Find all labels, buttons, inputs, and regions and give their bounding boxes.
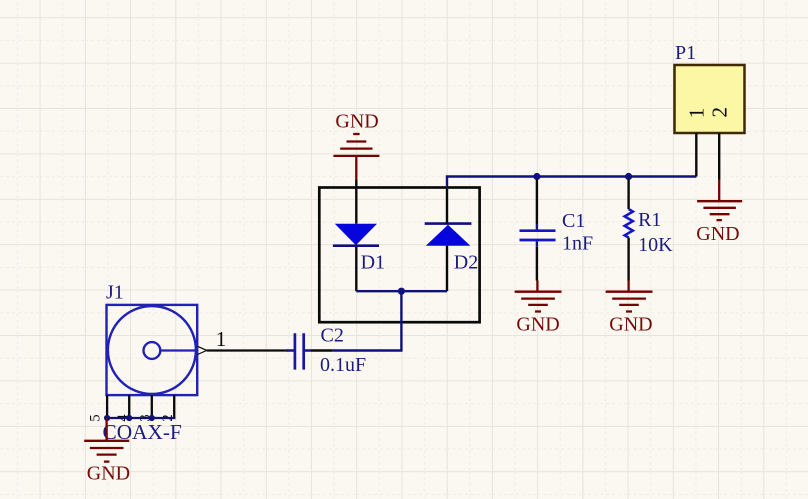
pin J1.5 xyxy=(106,395,108,418)
wire D1 lower pin xyxy=(355,247,357,291)
ground GND under P1 xyxy=(696,180,742,245)
svg-text:5: 5 xyxy=(87,414,103,421)
svg-text:GND: GND xyxy=(335,110,378,132)
pin J1.3 xyxy=(151,395,153,418)
pin P1.1 xyxy=(695,133,697,177)
ground GND under R1 xyxy=(606,281,653,336)
node junction D1/D2 xyxy=(398,288,405,295)
node junction R1 xyxy=(625,173,632,180)
capacitor C1 xyxy=(520,179,594,281)
wire GND stem to box top (D1 pin upper) xyxy=(355,179,357,223)
svg-text:GND: GND xyxy=(609,314,652,336)
diode D2 xyxy=(425,224,479,274)
svg-text:C2: C2 xyxy=(321,325,344,347)
ground GND top (power port for D1/D2 box) xyxy=(333,110,379,179)
svg-text:C1: C1 xyxy=(562,210,585,232)
ground GND under C1 xyxy=(515,281,562,336)
node shield junction 1 xyxy=(104,415,110,421)
resistor R1 xyxy=(625,179,674,281)
wire J1 shield bus xyxy=(107,417,175,419)
svg-text:R1: R1 xyxy=(638,209,661,231)
pin J1.2 xyxy=(173,395,175,418)
wire top net (box to P1) xyxy=(447,177,696,188)
svg-text:1: 1 xyxy=(684,108,708,119)
svg-text:1nF: 1nF xyxy=(562,233,593,255)
pin J1.4 xyxy=(128,395,130,418)
box around D1/D2 (rectangle) xyxy=(319,188,479,323)
ground GND under J1 xyxy=(84,418,130,485)
svg-text:D1: D1 xyxy=(361,252,385,274)
node junction C1 xyxy=(533,173,540,180)
svg-text:P1: P1 xyxy=(675,42,696,64)
wire D2 upper pin xyxy=(446,189,448,224)
diode D1 xyxy=(333,224,385,274)
pin P1.2 xyxy=(718,133,720,180)
svg-text:10K: 10K xyxy=(638,234,673,256)
svg-text:GND: GND xyxy=(696,223,739,245)
svg-text:1: 1 xyxy=(216,327,227,351)
svg-text:D2: D2 xyxy=(454,252,478,274)
node shield junction 3 xyxy=(149,415,155,421)
svg-text:J1: J1 xyxy=(106,281,124,303)
pin J1.1 xyxy=(207,349,289,351)
wire junction down to C2 xyxy=(333,291,402,350)
connector P1 xyxy=(675,42,745,180)
svg-text:GND: GND xyxy=(516,314,559,336)
pin 1 clip notch xyxy=(198,346,207,354)
wire C2 right pin xyxy=(311,349,333,351)
svg-text:0.1uF: 0.1uF xyxy=(320,354,366,376)
connector J1 COAX-F xyxy=(87,281,288,444)
node shield junction 2 xyxy=(126,415,132,421)
wire diode common cathode (bottom horizontal in box) xyxy=(356,290,447,292)
capacitor C2 xyxy=(287,325,367,377)
wire D2 lower pin xyxy=(446,246,448,292)
svg-text:GND: GND xyxy=(87,463,130,485)
svg-text:2: 2 xyxy=(708,107,732,118)
